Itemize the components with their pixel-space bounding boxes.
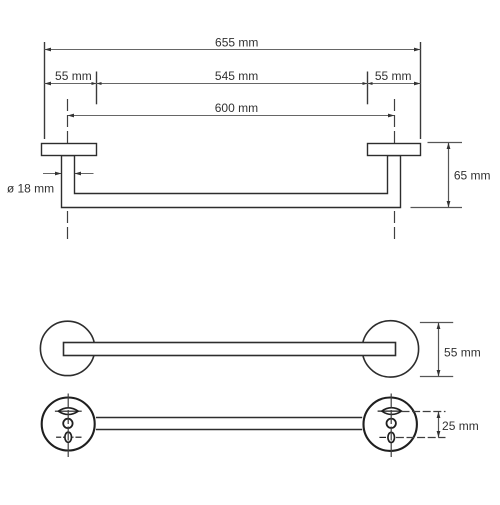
svg-text:55 mm: 55 mm xyxy=(375,69,412,83)
svg-text:25 mm: 25 mm xyxy=(442,419,479,433)
svg-text:55 mm: 55 mm xyxy=(444,345,481,359)
svg-text:545 mm: 545 mm xyxy=(215,69,258,83)
svg-text:655 mm: 655 mm xyxy=(215,36,258,50)
svg-text:600 mm: 600 mm xyxy=(215,101,258,115)
svg-text:ø 18 mm: ø 18 mm xyxy=(7,182,54,196)
svg-text:55 mm: 55 mm xyxy=(55,69,92,83)
svg-text:65 mm: 65 mm xyxy=(454,169,491,183)
